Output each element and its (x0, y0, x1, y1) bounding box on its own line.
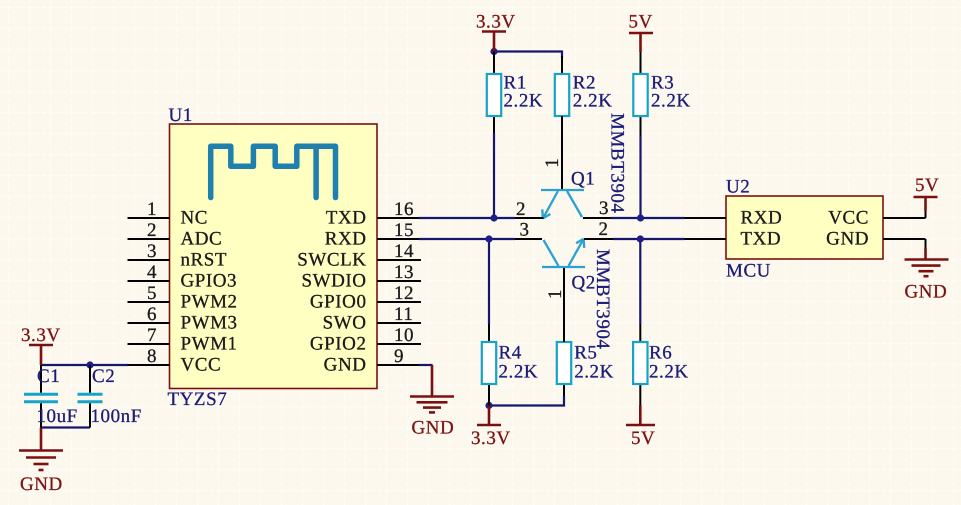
wire net RXD from U1 pin15 to Q2 collector (419, 238, 515, 240)
svg-text:3: 3 (519, 220, 529, 241)
svg-text:2: 2 (147, 220, 157, 241)
resistor R6 (633, 324, 689, 384)
power 5V bottom (626, 384, 655, 449)
junction node 3.3V/R1 (490, 48, 497, 55)
wire U1 pin9 to ground (419, 364, 433, 366)
svg-text:R4: R4 (499, 343, 522, 364)
svg-text:Q1: Q1 (571, 169, 595, 190)
svg-text:RXD: RXD (741, 208, 783, 229)
svg-text:MCU: MCU (726, 261, 771, 282)
wire 3.3V rail to R1 R2 (494, 52, 562, 75)
svg-text:5V: 5V (915, 175, 939, 196)
wire R4 top to RXD net (488, 239, 490, 324)
U1 pin 5 PWM2 (128, 283, 238, 313)
U1 pin 7 PWM1 (128, 325, 238, 355)
svg-text:1: 1 (147, 199, 157, 220)
svg-text:5V: 5V (629, 12, 653, 33)
svg-text:GND: GND (324, 355, 367, 376)
svg-text:MMBT3904: MMBT3904 (607, 113, 628, 213)
svg-text:PWM2: PWM2 (181, 292, 238, 313)
power 3.3V left (21, 325, 61, 365)
svg-text:PWM3: PWM3 (181, 313, 238, 334)
svg-text:2.2K: 2.2K (573, 91, 613, 112)
svg-text:GND: GND (905, 282, 948, 303)
resistor R5 (557, 342, 614, 396)
svg-text:nRST: nRST (181, 250, 228, 271)
junction node R1/TXD (490, 214, 497, 221)
resistor R4 (482, 324, 538, 406)
IC U2 MCU (726, 177, 883, 282)
wire net TXD from U1 pin16 to Q1 emitter (419, 217, 515, 219)
transistor Q1 pin number 2 (516, 199, 526, 220)
svg-text:SWDIO: SWDIO (301, 271, 366, 292)
svg-text:13: 13 (394, 262, 414, 283)
svg-text:SWCLK: SWCLK (297, 250, 366, 271)
svg-text:TXD: TXD (326, 208, 367, 229)
junction node R4/R5 bottom (485, 402, 492, 409)
U1 pin 1 NC (128, 199, 209, 229)
power 3.3V bottom-mid (471, 406, 511, 450)
svg-text:PWM1: PWM1 (181, 334, 238, 355)
svg-text:GND: GND (412, 418, 455, 439)
svg-text:3.3V: 3.3V (21, 325, 61, 346)
wire R4 bottom to R5 bottom (489, 396, 564, 406)
svg-text:2: 2 (516, 199, 526, 220)
svg-text:2.2K: 2.2K (499, 362, 539, 383)
ground symbol right (U2) (905, 239, 949, 303)
wire net RXD from Q2 emitter to U2 TXD (613, 238, 685, 240)
svg-text:NC: NC (181, 208, 209, 229)
transistor Q1 value MMBT3904 (607, 113, 628, 213)
svg-text:GND: GND (826, 229, 869, 250)
transistor Q1 pin number 3 (599, 198, 609, 219)
power 3.3V top-mid (476, 12, 516, 52)
transistor Q2 MMBT3904 (515, 239, 613, 342)
resistor R1 (487, 52, 543, 134)
U1 pin 11 SWO (323, 304, 421, 334)
svg-text:1: 1 (542, 158, 563, 168)
transistor Q1 pin number 1 (542, 158, 563, 168)
wire R1 bottom to TXD net (493, 133, 495, 218)
svg-text:15: 15 (394, 220, 414, 241)
wire R6 top to RXD net (639, 239, 641, 324)
svg-text:2.2K: 2.2K (574, 362, 614, 383)
transistor Q2 value MMBT3904 (592, 249, 613, 349)
transistor Q2 pin number 3 (519, 220, 529, 241)
power 5V top-mid (629, 12, 654, 75)
wire C1 bottom to C2 bottom (41, 426, 90, 428)
svg-text:SWO: SWO (323, 313, 367, 334)
U1 pin 6 PWM3 (128, 304, 238, 334)
svg-text:3.3V: 3.3V (476, 12, 516, 33)
svg-text:TYZS7: TYZS7 (168, 389, 228, 410)
U1 pin 9 GND (324, 346, 419, 376)
svg-text:C2: C2 (92, 366, 115, 387)
svg-text:TXD: TXD (741, 229, 782, 250)
U2 pin TXD (685, 229, 782, 250)
capacitor C1 (24, 365, 78, 428)
transistor Q2 pin number 2 (598, 219, 608, 240)
wire net TXD from Q1 collector to U2 RXD (611, 217, 685, 219)
svg-text:U1: U1 (169, 105, 193, 126)
U2 pin VCC (828, 208, 925, 229)
svg-text:VCC: VCC (181, 355, 222, 376)
U1 pin 10 GPIO2 (310, 325, 421, 355)
resistor R2 (555, 73, 613, 117)
svg-text:2.2K: 2.2K (504, 91, 544, 112)
svg-text:RXD: RXD (325, 229, 367, 250)
U1 pin 12 GPIO0 (310, 283, 421, 313)
svg-text:3: 3 (147, 241, 157, 262)
svg-text:2: 2 (598, 219, 608, 240)
svg-text:GPIO2: GPIO2 (310, 334, 367, 355)
svg-text:2.2K: 2.2K (649, 362, 689, 383)
svg-text:GPIO3: GPIO3 (181, 271, 238, 292)
U1 pin 3 nRST (128, 241, 228, 271)
junction node R3/TXD (637, 214, 644, 221)
svg-text:GND: GND (20, 474, 63, 495)
U2 pin RXD (685, 208, 783, 229)
svg-text:8: 8 (147, 346, 157, 367)
svg-text:C1: C1 (37, 366, 60, 387)
svg-text:5: 5 (147, 283, 157, 304)
U1 pin 4 GPIO3 (128, 262, 238, 292)
svg-text:U2: U2 (726, 177, 750, 198)
junction node C2/VCC (86, 361, 93, 368)
svg-text:2.2K: 2.2K (651, 91, 691, 112)
svg-text:ADC: ADC (181, 229, 223, 250)
svg-text:9: 9 (394, 346, 404, 367)
U1 pin 13 SWDIO (301, 262, 421, 292)
svg-text:VCC: VCC (828, 208, 869, 229)
U1 pin 16 TXD (326, 199, 419, 229)
svg-text:GPIO0: GPIO0 (310, 292, 367, 313)
IC U1 TYZS7 module (168, 105, 378, 410)
svg-text:10: 10 (394, 325, 414, 346)
resistor R3 (633, 73, 690, 137)
svg-text:11: 11 (394, 304, 413, 325)
svg-text:MMBT3904: MMBT3904 (592, 249, 613, 349)
U1 pin 14 SWCLK (297, 241, 421, 271)
svg-text:6: 6 (147, 304, 157, 325)
svg-text:14: 14 (394, 241, 414, 262)
U1 pin 8 VCC (128, 346, 222, 376)
svg-text:1: 1 (545, 289, 566, 299)
wire VCC rail to U1 pin8 (41, 364, 128, 366)
power 5V right (U2) (914, 175, 940, 218)
svg-text:10uF: 10uF (37, 406, 78, 427)
svg-text:5V: 5V (631, 428, 655, 449)
transistor Q2 pin number 1 (545, 289, 566, 299)
svg-text:12: 12 (394, 283, 414, 304)
transistor Q1 MMBT3904 (515, 116, 611, 218)
ground symbol U1 pin9 (410, 365, 454, 439)
svg-text:7: 7 (147, 325, 157, 346)
ground symbol left (C1) (19, 428, 63, 496)
U1 antenna glyph (211, 146, 336, 197)
svg-text:R6: R6 (649, 343, 672, 364)
U1 pin 15 RXD (325, 220, 419, 250)
svg-text:4: 4 (147, 262, 157, 283)
svg-text:100nF: 100nF (91, 406, 142, 427)
U2 pin GND (826, 229, 925, 250)
U1 pin 2 ADC (128, 220, 223, 250)
wire R3 bottom to TXD net (639, 136, 641, 218)
svg-text:3.3V: 3.3V (471, 428, 511, 449)
svg-text:16: 16 (394, 199, 414, 220)
capacitor C2 (78, 365, 142, 428)
junction node R4/RXD (485, 235, 492, 242)
junction node R6/RXD (637, 235, 644, 242)
